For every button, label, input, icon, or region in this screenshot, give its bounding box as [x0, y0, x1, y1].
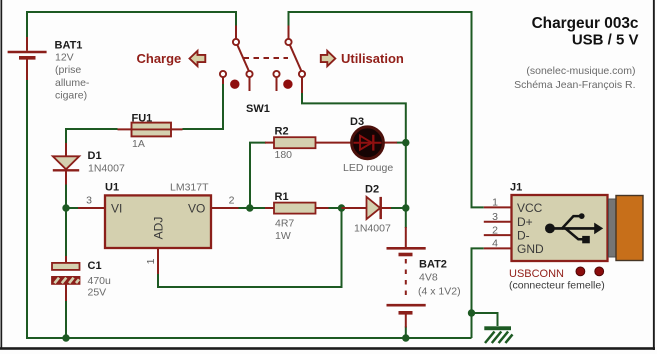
svg-text:4V8: 4V8	[419, 272, 438, 284]
svg-text:4R7: 4R7	[275, 218, 294, 230]
svg-text:USB / 5 V: USB / 5 V	[572, 32, 639, 49]
svg-text:VI: VI	[111, 202, 122, 216]
svg-text:VO: VO	[188, 202, 205, 216]
svg-text:Schéma Jean-François R.: Schéma Jean-François R.	[514, 79, 635, 91]
svg-text:Charge: Charge	[137, 51, 182, 66]
svg-text:1: 1	[492, 197, 498, 209]
svg-text:allume-: allume-	[55, 77, 90, 89]
svg-text:(connecteur femelle): (connecteur femelle)	[509, 280, 605, 292]
svg-text:1W: 1W	[275, 230, 291, 242]
svg-text:(prise: (prise	[55, 64, 81, 76]
svg-text:cigare): cigare)	[55, 89, 87, 101]
svg-text:1N4007: 1N4007	[354, 223, 391, 235]
svg-text:(4 x 1V2): (4 x 1V2)	[418, 286, 461, 298]
svg-text:3: 3	[492, 211, 498, 223]
svg-text:1N4007: 1N4007	[88, 163, 125, 175]
svg-text:D-: D-	[517, 229, 530, 243]
svg-text:D2: D2	[365, 184, 379, 196]
svg-text:180: 180	[275, 149, 293, 161]
svg-text:LED rouge: LED rouge	[343, 162, 393, 174]
svg-text:470u: 470u	[88, 275, 112, 287]
svg-text:D3: D3	[350, 116, 364, 128]
svg-text:GND: GND	[517, 242, 544, 256]
svg-text:1: 1	[145, 258, 157, 264]
svg-text:R1: R1	[275, 191, 289, 203]
svg-text:25V: 25V	[88, 287, 107, 299]
svg-text:C1: C1	[88, 260, 102, 272]
svg-text:FU1: FU1	[132, 113, 153, 125]
svg-text:D1: D1	[88, 150, 102, 162]
svg-text:(sonelec-musique.com): (sonelec-musique.com)	[526, 65, 635, 77]
svg-text:2: 2	[229, 195, 235, 207]
svg-text:3: 3	[86, 195, 92, 207]
svg-text:Utilisation: Utilisation	[341, 51, 404, 66]
svg-text:SW1: SW1	[246, 103, 270, 115]
svg-text:J1: J1	[510, 182, 522, 194]
svg-text:BAT1: BAT1	[55, 40, 83, 52]
svg-text:ADJ: ADJ	[152, 217, 166, 240]
svg-text:USBCONN: USBCONN	[509, 268, 564, 280]
svg-text:D+: D+	[517, 215, 533, 229]
svg-text:1A: 1A	[132, 138, 145, 150]
svg-text:U1: U1	[105, 182, 119, 194]
svg-text:4: 4	[492, 238, 498, 250]
svg-text:2: 2	[492, 224, 498, 236]
svg-text:Chargeur 003c: Chargeur 003c	[532, 15, 639, 32]
svg-text:BAT2: BAT2	[419, 259, 447, 271]
svg-text:R2: R2	[275, 126, 289, 138]
svg-text:12V: 12V	[55, 52, 74, 64]
svg-text:VCC: VCC	[517, 201, 543, 215]
svg-text:LM317T: LM317T	[170, 182, 209, 194]
